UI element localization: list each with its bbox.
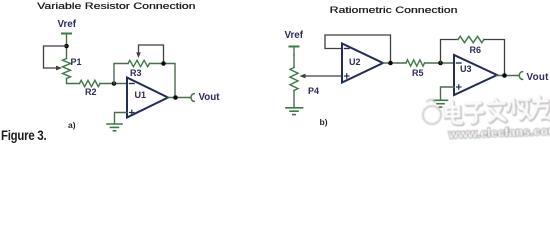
terminal Vref (right) xyxy=(290,47,299,56)
op-amp U1 plus pin mark xyxy=(130,110,135,115)
potentiometer P1 wiper arrowhead xyxy=(56,66,62,71)
wire node F up to R6 xyxy=(441,40,459,64)
potentiometer P4 wiper arrowhead xyxy=(300,74,306,79)
wire R5 to U3 inverting input xyxy=(425,62,455,64)
node F junction dot (U3 inverting input) xyxy=(438,61,443,66)
watermark glyphs white core xyxy=(445,97,550,124)
op-amp U3 minus pin mark xyxy=(457,62,462,64)
potentiometer P4 label xyxy=(308,86,319,96)
potentiometer P1 body xyxy=(63,59,71,79)
op-amp U2 plus pin mark xyxy=(345,74,350,79)
resistor R3 label xyxy=(130,68,142,78)
wire node B up to R3 xyxy=(114,64,128,84)
resistor R6 body xyxy=(458,36,484,42)
wire P4 bottom to ground xyxy=(293,91,295,108)
node Vout (right) xyxy=(527,72,549,83)
wire Vref to P4 top xyxy=(293,55,295,68)
sub-label a) xyxy=(68,120,76,130)
op-amp U3 body xyxy=(454,55,497,95)
resistor R3 wiper arrowhead xyxy=(136,52,141,58)
wire Vref node to P1 top xyxy=(66,46,68,59)
op-amp U1 minus pin mark xyxy=(130,83,135,85)
node Vout (left) xyxy=(199,92,220,103)
wire U3 plus input to ground xyxy=(441,87,455,100)
ground (under U3) xyxy=(434,100,448,107)
node Vref (right) xyxy=(285,30,304,41)
sub-label b) xyxy=(320,117,328,127)
op-amp U1 label xyxy=(135,90,147,100)
terminal Vout (left) xyxy=(191,94,194,102)
op-amp U3 plus pin mark xyxy=(457,85,462,90)
wire R3 right to output drop xyxy=(150,64,176,98)
op-amp U2 minus pin mark xyxy=(345,48,350,50)
node Vref (left) xyxy=(58,19,77,30)
node A junction dot (Vref/P1/wiper) xyxy=(64,44,69,49)
op-amp U3 label xyxy=(460,64,472,74)
wire R2 to U1 inverting input xyxy=(100,83,127,85)
wire U1 output to Vout xyxy=(168,97,191,99)
svg-text:www.elecfans.com: www.elecfans.com xyxy=(447,124,550,142)
node B junction dot (inverting input) xyxy=(112,81,117,86)
wire U2 output to R5 xyxy=(383,62,406,64)
terminal Vref (left) xyxy=(62,34,71,47)
title: Ratiometric Connection xyxy=(330,5,458,15)
watermark icon xyxy=(422,99,441,124)
resistor R3 wiper arrow loop xyxy=(139,45,164,64)
resistor R6 label xyxy=(470,45,482,55)
op-amp U2 label xyxy=(349,57,361,67)
watermark glyphs shadow xyxy=(446,98,550,125)
op-amp U1 body xyxy=(127,78,168,118)
potentiometer P1 label xyxy=(71,57,82,67)
wire P1 bottom to R2 xyxy=(67,79,80,84)
node E junction dot (U2 output) xyxy=(388,61,393,66)
potentiometer P4 body xyxy=(290,68,298,91)
resistor R2 label xyxy=(85,87,97,97)
op-amp U2 feedback loop wire xyxy=(325,35,391,63)
resistor R5 label xyxy=(412,68,424,78)
potentiometer P1 wiper tie loop xyxy=(44,46,67,68)
terminal Vout (right) xyxy=(519,72,522,80)
ground (under U1) xyxy=(107,124,122,131)
node G junction dot (U3 output) xyxy=(502,73,507,78)
ground (under P4) xyxy=(286,108,303,115)
resistor R3 body (variable) xyxy=(128,60,150,66)
node D junction dot (output) xyxy=(173,95,178,100)
wire R6 right down to U3 output xyxy=(484,40,505,76)
potentiometer P4 wiper wire to U2 plus input xyxy=(305,75,343,77)
wire U3 output to Vout xyxy=(497,75,519,77)
op-amp U2 body xyxy=(342,44,383,83)
node C junction dot (R3/wiper) xyxy=(161,61,166,66)
resistor R2 body xyxy=(80,80,101,86)
title: Variable Resistor Connection xyxy=(37,1,195,11)
wire U1 plus input to ground xyxy=(115,113,128,124)
resistor R5 body xyxy=(406,60,425,66)
caption Figure 3. xyxy=(1,128,46,143)
